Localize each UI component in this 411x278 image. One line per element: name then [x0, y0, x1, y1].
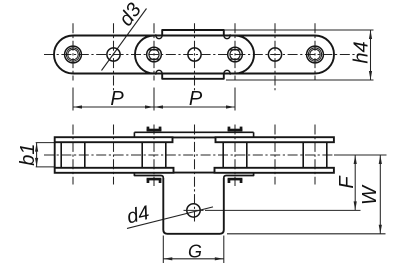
- svg-text:h4: h4: [350, 41, 372, 63]
- svg-text:b1: b1: [17, 143, 39, 165]
- svg-text:P: P: [189, 88, 203, 110]
- svg-text:W: W: [359, 184, 381, 205]
- svg-text:G: G: [188, 241, 202, 261]
- svg-text:F: F: [336, 175, 358, 189]
- svg-text:P: P: [110, 88, 124, 110]
